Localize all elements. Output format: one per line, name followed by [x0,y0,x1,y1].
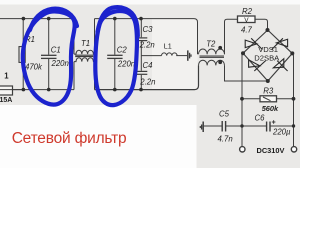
svg-text:4.7: 4.7 [241,25,253,34]
svg-text:220n: 220n [51,59,69,68]
svg-text:C2: C2 [117,45,128,54]
svg-text:T1: T1 [81,39,90,48]
svg-text:220µ: 220µ [272,128,291,137]
svg-text:C1: C1 [51,46,61,55]
svg-text:15A: 15A [0,97,12,104]
svg-text:C3: C3 [143,25,154,34]
svg-text:560k: 560k [262,104,279,113]
svg-text:R2: R2 [242,7,253,16]
svg-text:470k: 470k [25,63,43,72]
svg-text:V: V [244,17,249,24]
svg-text:2.2n: 2.2n [139,77,155,86]
svg-text:L1: L1 [164,41,172,50]
svg-text:C5: C5 [219,109,230,118]
svg-text:2.2n: 2.2n [139,40,155,49]
svg-text:C4: C4 [143,61,154,70]
svg-text:Сетевой фильтр: Сетевой фильтр [12,130,127,147]
svg-text:T2: T2 [206,40,216,49]
svg-text:1: 1 [4,72,9,81]
svg-text:DC310V: DC310V [257,146,285,155]
svg-text:R3: R3 [263,87,274,96]
svg-text:4.7n: 4.7n [218,135,233,144]
svg-text:D2SBA: D2SBA [254,53,280,62]
svg-text:C6: C6 [255,114,266,123]
svg-text:220n: 220n [117,59,135,68]
